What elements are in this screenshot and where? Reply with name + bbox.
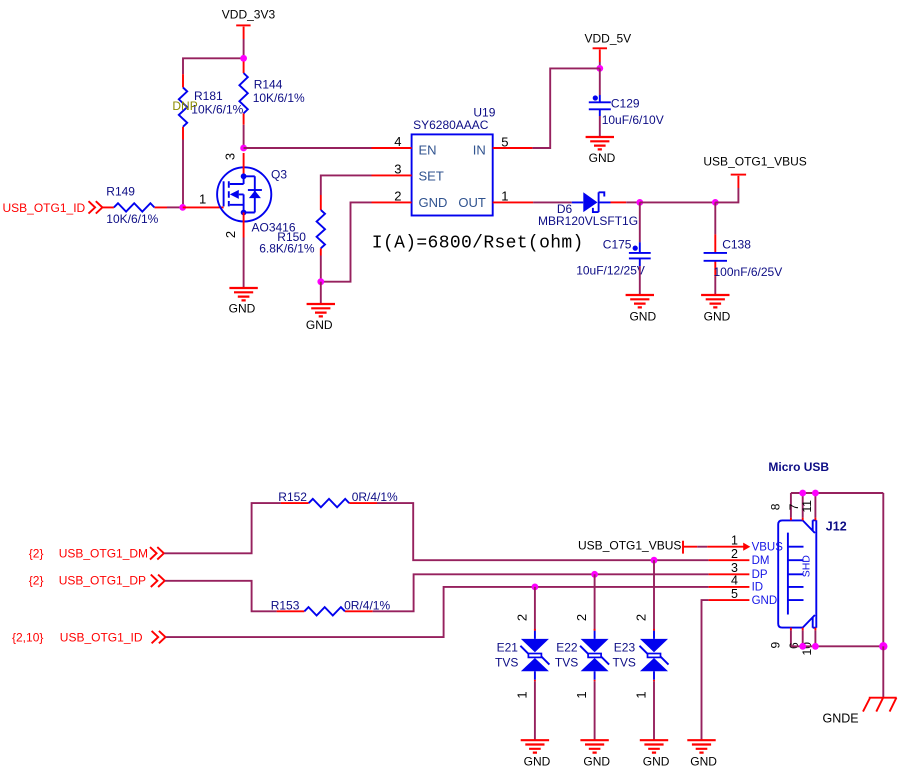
svg-text:GND: GND [690, 755, 717, 769]
wire node F to C175 [639, 202, 641, 242]
pin 3 lead DP [709, 573, 750, 575]
svg-text:VDD_5V: VDD_5V [585, 32, 632, 46]
wire node I to E22 [594, 574, 596, 630]
svg-text:4: 4 [731, 574, 738, 588]
TVS diode E23 [613, 629, 669, 682]
svg-text:TVS: TVS [495, 655, 518, 669]
svg-text:GNDE: GNDE [823, 711, 859, 725]
svg-text:{2}: {2} [29, 574, 44, 588]
svg-text:USB_OTG1_ID: USB_OTG1_ID [60, 631, 143, 645]
node G junction [712, 199, 719, 206]
ground GND (C175) [626, 295, 657, 324]
svg-text:1: 1 [199, 192, 206, 207]
wire E21 to ground [534, 681, 536, 740]
ground GNDE (chassis) [823, 698, 897, 726]
svg-text:10K/6/1%: 10K/6/1% [191, 102, 243, 116]
svg-text:OUT: OUT [458, 195, 486, 210]
svg-text:DP: DP [752, 569, 768, 581]
transistor Q3 [217, 153, 296, 238]
wire C175 to ground [639, 266, 641, 295]
svg-text:C138: C138 [722, 238, 751, 252]
svg-text:1: 1 [515, 691, 530, 698]
svg-text:DNP: DNP [172, 99, 197, 113]
svg-text:GND: GND [229, 302, 256, 316]
svg-text:1: 1 [731, 534, 738, 548]
svg-text:GND: GND [643, 755, 670, 769]
diode D6 MBR120VLSFT1G [538, 192, 638, 228]
node D junction [317, 278, 324, 285]
wire shield right vertical [882, 493, 884, 646]
wire VDD_5V to node E [599, 62, 601, 68]
wire shield to GNDE [882, 646, 884, 697]
ground GND (R150) [306, 304, 335, 332]
svg-text:{2,10}: {2,10} [12, 631, 43, 645]
svg-text:VDD_3V3: VDD_3V3 [222, 8, 276, 22]
svg-text:3: 3 [223, 153, 238, 160]
wire SET net [321, 175, 372, 195]
node O junction (shield) [879, 642, 887, 650]
svg-text:2: 2 [223, 231, 238, 238]
capacitor C175 [576, 238, 651, 278]
svg-text:USB_OTG1_DM: USB_OTG1_DM [59, 546, 148, 560]
svg-text:GND: GND [419, 195, 448, 210]
pin 1 lead OUT [493, 201, 533, 203]
svg-text:3: 3 [394, 162, 401, 177]
wire R149 to node B [167, 206, 183, 208]
ground GND (Q3) [229, 288, 258, 316]
svg-text:R153: R153 [271, 598, 300, 612]
node L junction (pin 11 top) [812, 490, 819, 497]
wire node H to E21 [534, 587, 536, 631]
resistor R149 [103, 184, 167, 226]
wire node J to E23 [653, 560, 655, 630]
svg-text:{2}: {2} [29, 546, 44, 560]
node J junction (E23 on DM bus) [651, 557, 658, 564]
resistor R181 [172, 74, 243, 139]
svg-text:DM: DM [752, 555, 770, 567]
pin 4 lead EN [372, 147, 412, 149]
wire node E to IN pin [532, 68, 599, 148]
wire R152 to DM bus [377, 503, 709, 560]
svg-text:EN: EN [419, 143, 437, 158]
svg-text:0R/4/1%: 0R/4/1% [344, 598, 390, 612]
wire node G to VBUS power [715, 188, 738, 202]
pin 10 lead [814, 628, 816, 647]
svg-text:J12: J12 [826, 520, 847, 534]
svg-text:SET: SET [419, 169, 444, 184]
svg-text:ID: ID [752, 582, 764, 594]
capacitor C129 [589, 95, 664, 127]
svg-text:2: 2 [731, 547, 738, 561]
ground GND (E23) [640, 740, 670, 768]
capacitor C138 [704, 234, 783, 279]
resistor R153 [271, 598, 391, 615]
node B junction [179, 204, 186, 211]
wire node E to C129 [599, 68, 601, 95]
wire junction A left and down to R181 [183, 58, 244, 74]
svg-text:GND: GND [704, 310, 731, 324]
svg-text:SHD: SHD [801, 555, 813, 578]
port USB_OTG1_DP [29, 574, 165, 588]
TVS diode E21 [495, 629, 549, 682]
svg-text:GND: GND [629, 310, 656, 324]
svg-text:1: 1 [574, 691, 589, 698]
wire DM port to R152 [164, 503, 281, 553]
svg-text:2: 2 [574, 614, 589, 621]
resistor R152 [278, 490, 398, 507]
power VDD_3V3 [222, 8, 276, 39]
svg-text:R152: R152 [278, 490, 307, 504]
wire E23 to ground [653, 681, 655, 740]
wire R144 to node C [243, 125, 245, 148]
wire E22 to ground [594, 681, 596, 740]
svg-text:10uF/6/10V: 10uF/6/10V [602, 113, 664, 127]
svg-text:USB_OTG1_ID: USB_OTG1_ID [3, 201, 86, 215]
svg-text:R144: R144 [254, 78, 283, 92]
svg-text:2: 2 [634, 614, 649, 621]
svg-text:11: 11 [800, 500, 814, 513]
pin 2 lead GND [372, 201, 412, 203]
wire gate lead pin 1 [183, 206, 224, 208]
pin 4 lead ID [709, 586, 750, 588]
svg-text:GND: GND [589, 151, 616, 165]
pin 9 lead [790, 628, 792, 647]
node K junction (pin 7 top) [799, 490, 806, 497]
resistor R150 [259, 195, 325, 256]
node E junction [596, 65, 603, 72]
node C junction [240, 145, 247, 152]
wire R181 to node B [182, 140, 184, 208]
pin 2 lead DM [709, 559, 750, 561]
connector J12 Micro USB [752, 460, 847, 628]
wire Q3 source to ground [243, 238, 245, 289]
svg-text:MBR120VLSFT1G: MBR120VLSFT1G [538, 214, 638, 228]
svg-text:2: 2 [394, 189, 401, 204]
node I junction (E22 on DP bus) [591, 571, 598, 578]
svg-text:3: 3 [731, 561, 738, 575]
svg-text:TVS: TVS [613, 655, 636, 669]
svg-text:TVS: TVS [555, 655, 578, 669]
ground GND (C138) [701, 295, 731, 324]
svg-text:GND: GND [524, 755, 551, 769]
wire GND pin 5 net [702, 600, 709, 740]
svg-text:10K/6/1%: 10K/6/1% [106, 212, 158, 226]
svg-text:SY6280AAAC: SY6280AAAC [413, 118, 489, 132]
pin 5 lead GND [709, 599, 750, 601]
svg-text:8: 8 [768, 503, 782, 510]
wire R153 to DP bus [373, 574, 709, 611]
svg-text:E21: E21 [497, 640, 519, 654]
pin 5 lead IN [493, 147, 533, 149]
node H junction (E21 on ID bus) [532, 584, 539, 591]
wire EN net [244, 147, 372, 149]
wire node D to ground [320, 282, 322, 304]
svg-text:2: 2 [515, 614, 530, 621]
pin 7 lead [802, 493, 804, 520]
wire C138 to ground [714, 277, 716, 295]
svg-text:R149: R149 [106, 184, 135, 198]
ground GND (E21) [521, 740, 551, 768]
svg-text:C129: C129 [611, 96, 640, 110]
net label USB_OTG1_VBUS [578, 538, 697, 553]
wire C129 to ground [599, 116, 601, 137]
port USB_OTG1_DM [29, 546, 164, 560]
svg-text:IN: IN [473, 143, 486, 158]
wire VDD_3V3 to junction A [243, 39, 245, 58]
wire OUT net to D6 [533, 201, 572, 203]
wire DP port to R153 [165, 581, 277, 612]
TVS diode E22 [555, 629, 609, 682]
port USB_OTG1_ID [3, 201, 103, 215]
node A junction [240, 55, 247, 62]
svg-text:100nF/6/25V: 100nF/6/25V [714, 265, 783, 279]
pin 3 lead SET [372, 174, 412, 176]
ground GND (pin 5) [687, 740, 717, 768]
svg-text:USB_OTG1_VBUS: USB_OTG1_VBUS [578, 538, 681, 552]
wire node F to node G [640, 201, 716, 203]
wire ID port to ID bus [166, 587, 709, 637]
svg-text:5: 5 [501, 134, 508, 149]
svg-text:9: 9 [768, 641, 782, 648]
svg-text:GND: GND [583, 755, 610, 769]
pin 11 lead [814, 493, 816, 520]
svg-text:E23: E23 [614, 640, 636, 654]
node N junction (pin 10 bottom) [812, 643, 819, 650]
wire node G to C138 [714, 202, 716, 234]
svg-text:C175: C175 [603, 238, 632, 252]
svg-text:USB_OTG1_DP: USB_OTG1_DP [59, 574, 146, 588]
node F junction [636, 199, 643, 206]
IC U19 SY6280AAAC [412, 106, 496, 216]
svg-text:6.8K/6/1%: 6.8K/6/1% [259, 241, 315, 255]
svg-text:10uF/12/25V: 10uF/12/25V [576, 263, 645, 277]
power VDD_5V [585, 32, 632, 62]
wire shield bottom bus [791, 645, 883, 647]
pin 8 lead [790, 493, 792, 520]
ground GND (C129) [586, 137, 616, 165]
svg-text:7: 7 [787, 503, 801, 510]
power USB_OTG1_VBUS [703, 155, 806, 188]
ground GND (E22) [580, 740, 610, 768]
svg-text:VBUS: VBUS [752, 542, 784, 554]
port USB_OTG1_ID (bottom) [12, 631, 166, 645]
svg-text:R181: R181 [194, 89, 223, 103]
svg-text:1: 1 [501, 189, 508, 204]
svg-text:Q3: Q3 [271, 168, 287, 182]
svg-text:E22: E22 [556, 640, 578, 654]
svg-text:1: 1 [634, 691, 649, 698]
wire D6 to node F [626, 201, 640, 203]
svg-text:I(A)=6800/Rset(ohm): I(A)=6800/Rset(ohm) [372, 234, 584, 254]
wire VBUS net [697, 546, 707, 548]
wire shield top bus [791, 492, 883, 494]
pin 1 lead VBUS with arrow [707, 543, 750, 551]
pin 6 lead [802, 628, 804, 647]
wire R150 to node D [320, 256, 322, 282]
svg-text:5: 5 [731, 587, 738, 601]
svg-text:GND: GND [752, 595, 778, 607]
svg-text:10K/6/1%: 10K/6/1% [253, 91, 305, 105]
svg-text:4: 4 [394, 134, 401, 149]
svg-text:0R/4/1%: 0R/4/1% [352, 490, 398, 504]
svg-text:USB_OTG1_VBUS: USB_OTG1_VBUS [703, 155, 806, 169]
node M junction (pin 6 bottom) [799, 643, 806, 650]
wire GND pin 2 net [321, 202, 372, 281]
resistor R144 [239, 62, 305, 125]
svg-text:Micro USB: Micro USB [768, 460, 829, 474]
svg-text:GND: GND [306, 318, 333, 332]
